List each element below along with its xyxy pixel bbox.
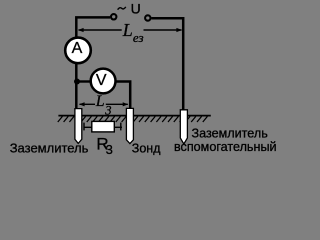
svg-text:L: L [122, 20, 133, 40]
svg-text:A: A [72, 40, 83, 57]
junction node [74, 79, 80, 85]
voltmeter V [91, 69, 116, 94]
label Zazemlitel vspomogatelnyj [174, 127, 277, 155]
svg-text:3: 3 [106, 142, 113, 157]
ammeter A [65, 38, 91, 64]
resistor R3 lead left with tick [84, 123, 92, 131]
terminal left [111, 14, 116, 19]
wire voltmeter to probe electrode [116, 82, 131, 109]
dimension line L_ez [78, 20, 182, 45]
svg-text:Заземлитель: Заземлитель [10, 141, 89, 156]
svg-text:U: U [131, 0, 141, 16]
wire junction to voltmeter [75, 80, 91, 82]
terminal right [145, 15, 150, 20]
electrode middle (probe) [126, 108, 133, 143]
resistor R3 body [92, 121, 115, 131]
svg-text:вспомогательный: вспомогательный [174, 140, 277, 154]
electrode right (auxiliary) [180, 110, 187, 144]
wire left-top (from ammeter up and right to left terminal) [76, 17, 110, 39]
label Zazemlitel [10, 141, 89, 156]
svg-text:ез: ез [133, 30, 144, 45]
dimension line L_z [79, 93, 128, 118]
svg-text:V: V [96, 72, 107, 89]
svg-text:L: L [95, 93, 105, 110]
svg-text:Заземлитель: Заземлитель [192, 127, 269, 141]
ground hatching [58, 116, 208, 122]
svg-text:Зонд: Зонд [132, 141, 161, 155]
wire right-top (from right terminal right and down to auxiliary electrode) [151, 18, 183, 110]
label Zond [132, 141, 161, 155]
source label ~ U [118, 0, 141, 16]
wire ammeter to junction and down to left electrode [75, 62, 78, 109]
ground surface line [58, 115, 210, 117]
electrode left (zazemlitel) [75, 109, 82, 144]
label R3 [96, 134, 112, 157]
resistor R3 lead right with tick [115, 123, 123, 131]
